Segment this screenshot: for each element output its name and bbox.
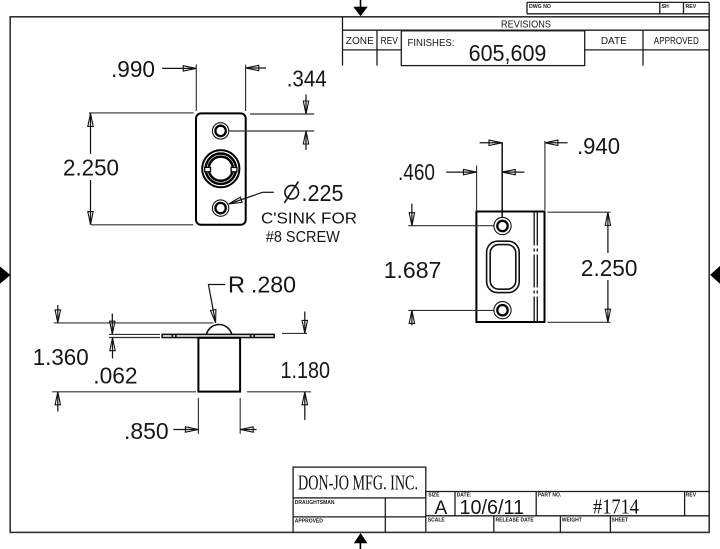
svg-text:PART NO.: PART NO.	[538, 492, 562, 498]
right border center marker	[710, 266, 720, 284]
dimension 2.250 (view 3)	[548, 212, 638, 322]
svg-text:2.250: 2.250	[63, 154, 119, 180]
view 3: latch slot	[487, 241, 520, 292]
view 1: center ball hole	[202, 150, 239, 187]
svg-text:#1714: #1714	[593, 495, 639, 519]
dimension .850	[124, 398, 257, 444]
svg-text:.990: .990	[111, 56, 155, 82]
svg-text:DRAUGHTSMAN: DRAUGHTSMAN	[295, 500, 335, 506]
svg-text:1.687: 1.687	[384, 257, 442, 283]
svg-text:REV: REV	[686, 492, 697, 498]
svg-text:SH: SH	[662, 4, 669, 10]
svg-text:SHEET: SHEET	[612, 518, 629, 524]
dimension .940	[480, 133, 620, 217]
svg-text:.225: .225	[302, 180, 344, 206]
svg-text:FINISHES:: FINISHES:	[408, 38, 455, 49]
left border center marker	[0, 267, 10, 284]
dimension 1.687	[384, 204, 494, 326]
bottom border center marker	[354, 533, 368, 549]
svg-text:.062: .062	[93, 363, 137, 389]
title block small labels	[428, 492, 697, 523]
revisions table grid	[343, 17, 710, 66]
view 1: catch plate front outline	[196, 113, 246, 224]
leader and note: dia .225 c'sink for #8 screw	[229, 180, 357, 246]
revisions table labels	[346, 19, 699, 49]
view 1: top screw hole	[212, 123, 228, 139]
svg-text:A: A	[435, 498, 448, 519]
svg-text:C'SINK FOR: C'SINK FOR	[261, 210, 357, 227]
view 3: bottom screw hole	[494, 302, 511, 319]
dimension 1.360	[33, 305, 214, 412]
title block company box	[293, 467, 426, 498]
svg-text:2.250: 2.250	[581, 255, 638, 281]
view 3: bend centerlines	[534, 213, 537, 322]
svg-text:.460: .460	[398, 159, 435, 185]
view 3: top screw hole	[494, 217, 511, 234]
view 1: bottom screw hole	[212, 200, 228, 216]
dimension 1.180	[247, 312, 330, 420]
leader and note R .280	[208, 272, 296, 323]
view 2: cylinder body	[198, 338, 240, 392]
svg-text:1.180: 1.180	[281, 357, 331, 383]
svg-text:10/6/11: 10/6/11	[460, 497, 525, 519]
svg-text:DATE: DATE	[601, 36, 627, 47]
svg-text:REV: REV	[380, 36, 398, 47]
svg-text:DON-JO MFG. INC.: DON-JO MFG. INC.	[298, 470, 418, 494]
svg-text:605,609: 605,609	[469, 40, 547, 66]
svg-text:#8 SCREW: #8 SCREW	[266, 229, 341, 246]
view 2: ball dome	[206, 325, 231, 335]
svg-text:WEIGHT: WEIGHT	[562, 518, 582, 524]
top-right partial title strip (DWG NO / SH / REV)	[527, 2, 709, 13]
dimension .990	[111, 56, 266, 111]
view 3: strike plate outline	[476, 212, 544, 323]
svg-text:ZONE: ZONE	[346, 36, 374, 47]
svg-text:.940: .940	[577, 133, 620, 159]
dimension .460	[398, 159, 524, 210]
title block left grid	[293, 492, 426, 533]
dimension .062	[93, 314, 160, 389]
svg-text:APPROVED: APPROVED	[654, 36, 699, 47]
dimension .344	[229, 66, 326, 150]
svg-text:.280: .280	[251, 272, 296, 298]
top border center marker	[353, 0, 367, 16]
svg-text:.344: .344	[287, 66, 327, 92]
dimension 2.250 (view 1)	[63, 113, 194, 225]
title block right grid	[426, 492, 709, 533]
svg-text:DWG NO: DWG NO	[529, 4, 551, 10]
svg-text:1.360: 1.360	[33, 344, 89, 370]
revisions finishes box	[401, 31, 584, 66]
view 2: flange plate edge view	[162, 334, 274, 338]
svg-text:.850: .850	[124, 418, 169, 444]
svg-text:APPROVED: APPROVED	[295, 519, 323, 525]
svg-text:REV: REV	[686, 4, 697, 10]
svg-text:REVISIONS: REVISIONS	[501, 19, 551, 30]
svg-text:R: R	[228, 272, 245, 298]
